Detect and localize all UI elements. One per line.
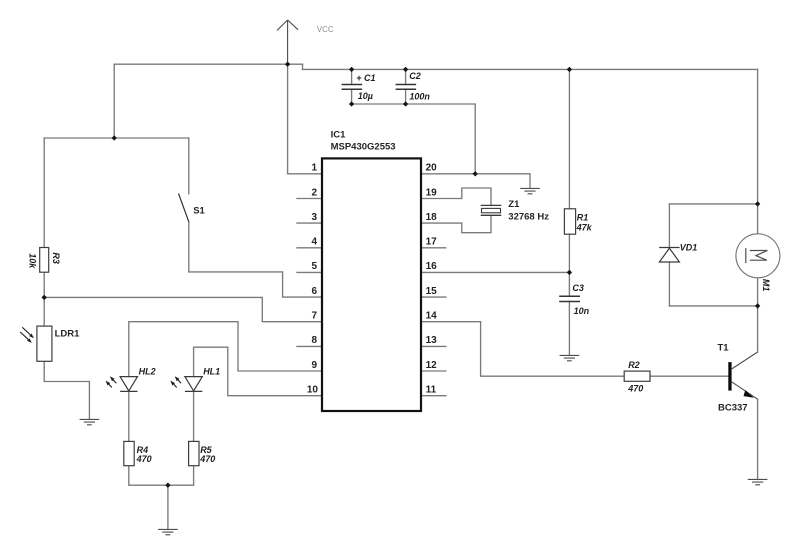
resistor R5 (189, 441, 199, 465)
svg-text:470: 470 (199, 454, 215, 464)
ground at R4 R5 (158, 529, 178, 534)
ground at pin20 (520, 188, 540, 193)
svg-text:12: 12 (426, 360, 438, 371)
svg-text:LDR1: LDR1 (55, 328, 81, 339)
capacitor C2 plates (396, 85, 417, 90)
capacitor C3 plates (559, 296, 580, 301)
svg-text:6: 6 (311, 286, 317, 297)
svg-text:14: 14 (426, 311, 438, 322)
ground at T1 emitter (748, 479, 768, 484)
svg-text:47k: 47k (576, 222, 593, 232)
svg-text:R3: R3 (51, 252, 61, 264)
wire R1 top (568, 69, 570, 208)
VCC symbol arrow (277, 20, 298, 64)
ground at LDR (80, 419, 100, 424)
svg-text:5: 5 (311, 261, 317, 272)
resistor R1 (564, 209, 575, 234)
switch S1 (179, 194, 189, 222)
svg-text:4: 4 (311, 237, 317, 248)
pin stub 11 (421, 395, 446, 397)
wire motor top node to VD1 (669, 204, 757, 234)
diode VD1 (659, 248, 679, 263)
capacitor C1 plates (342, 85, 363, 90)
motor M1 circle (736, 234, 780, 278)
photoresistor LDR1 box (37, 326, 52, 361)
wire top rail right (303, 68, 758, 70)
wire R2 to T1 base (650, 375, 728, 377)
motor M1 symbol (746, 248, 768, 263)
svg-text:8: 8 (311, 335, 317, 346)
wire VCC to pin1 (288, 64, 322, 174)
wire C1 column (351, 69, 353, 104)
svg-text:R1: R1 (577, 213, 589, 223)
wire C2 column (405, 69, 407, 104)
svg-text:R2: R2 (628, 360, 640, 370)
svg-text:+ C1: + C1 (356, 73, 375, 83)
wire T1 emitter to ground (757, 399, 759, 479)
svg-text:9: 9 (311, 360, 317, 371)
svg-text:10: 10 (307, 385, 319, 396)
svg-text:100n: 100n (409, 92, 430, 102)
svg-text:10µ: 10µ (358, 91, 373, 101)
svg-text:HL1: HL1 (203, 367, 220, 377)
wire top rail jog (302, 64, 304, 69)
pin stub 8 (297, 345, 322, 347)
pin stub 2 (297, 198, 322, 200)
svg-text:1: 1 (311, 163, 317, 174)
svg-text:IC1: IC1 (331, 130, 347, 141)
pin stub 4 (297, 247, 322, 249)
svg-text:19: 19 (426, 187, 438, 198)
IC U1 box MSP430G2553 (322, 158, 421, 411)
svg-text:16: 16 (426, 261, 438, 272)
resistor R3 (40, 248, 49, 273)
svg-text:470: 470 (136, 454, 152, 464)
svg-text:MSP430G2553: MSP430G2553 (331, 142, 396, 153)
LED HL2 (120, 377, 137, 392)
svg-text:Z1: Z1 (508, 199, 520, 210)
svg-text:7: 7 (311, 311, 317, 322)
LED HL1 (185, 377, 202, 392)
svg-text:T1: T1 (718, 342, 730, 353)
wire pin14 to R2 (421, 322, 624, 377)
pin stub 15 (421, 296, 446, 298)
svg-text:VCC: VCC (317, 25, 334, 34)
wire pin16 (421, 271, 569, 273)
transistor T1 emitter arrow (744, 390, 754, 398)
svg-text:VD1: VD1 (680, 243, 698, 253)
wire cap bottom rail to pin20 (352, 104, 476, 174)
svg-text:M1: M1 (761, 279, 771, 292)
svg-text:10k: 10k (27, 253, 37, 269)
transistor T1 emitter (732, 382, 758, 399)
svg-text:10n: 10n (574, 306, 590, 316)
wire HL2 anode to pin9 (129, 322, 322, 377)
pin stub 3 (297, 222, 322, 224)
wire R1 bottom to C3 (568, 234, 570, 296)
wire LDR bottom to ground (44, 361, 89, 419)
pin numbers left (307, 163, 319, 396)
resistor R2 (624, 371, 650, 381)
pin stub 5 (297, 271, 322, 273)
wire C3 to ground (568, 302, 570, 356)
wire motor bottom node (669, 278, 757, 352)
wire motor column top (757, 69, 759, 204)
wire HL2 cathode to R4 (128, 391, 130, 441)
wire VCC top rail left (114, 63, 302, 65)
wire S1 bottom to pin6 (189, 222, 322, 297)
pin numbers right (426, 163, 438, 396)
svg-text:BC337: BC337 (718, 402, 748, 413)
svg-text:470: 470 (627, 384, 643, 394)
svg-text:S1: S1 (193, 205, 205, 216)
wire R3 top (43, 138, 45, 248)
pin stub 12 (421, 370, 446, 372)
wire R3 bottom to LDR (43, 272, 45, 326)
ground at C3 (560, 355, 580, 360)
pin stub 13 (421, 345, 446, 347)
wire S1 top (188, 138, 190, 194)
svg-text:13: 13 (426, 335, 438, 346)
wire pin20 to ground (421, 174, 530, 189)
wire HL1 anode to pin10 (194, 347, 322, 396)
LED HL2 emission arrows (106, 376, 117, 387)
svg-text:15: 15 (426, 286, 438, 297)
pin stub 17 (421, 247, 446, 249)
svg-text:18: 18 (426, 212, 438, 223)
LDR1 arrows (20, 327, 34, 343)
svg-text:11: 11 (426, 385, 437, 396)
wire horizontal node row (44, 137, 189, 139)
transistor T1 collector (732, 352, 758, 369)
transistor T1 base bar (728, 362, 731, 391)
resistor R4 (124, 441, 134, 465)
svg-text:3: 3 (311, 212, 317, 223)
wire VD1 column (668, 204, 670, 306)
svg-text:32768 Hz: 32768 Hz (508, 212, 549, 223)
svg-text:C2: C2 (409, 71, 421, 81)
wire HL1 cathode to R5 (193, 391, 195, 441)
wire R3 node to pin7 (44, 297, 322, 321)
svg-text:HL2: HL2 (139, 367, 156, 377)
svg-text:17: 17 (426, 237, 438, 248)
svg-text:C3: C3 (572, 283, 584, 293)
wire pin18 to crystal (421, 215, 491, 232)
wire pin19 to crystal (421, 188, 491, 205)
wire R4 R5 bottoms to ground (129, 466, 194, 530)
LED HL1 emission arrows (170, 376, 181, 387)
wire left drop to node (113, 64, 115, 138)
crystal Z1 (481, 205, 502, 215)
svg-text:20: 20 (426, 163, 438, 174)
svg-text:2: 2 (311, 187, 317, 198)
